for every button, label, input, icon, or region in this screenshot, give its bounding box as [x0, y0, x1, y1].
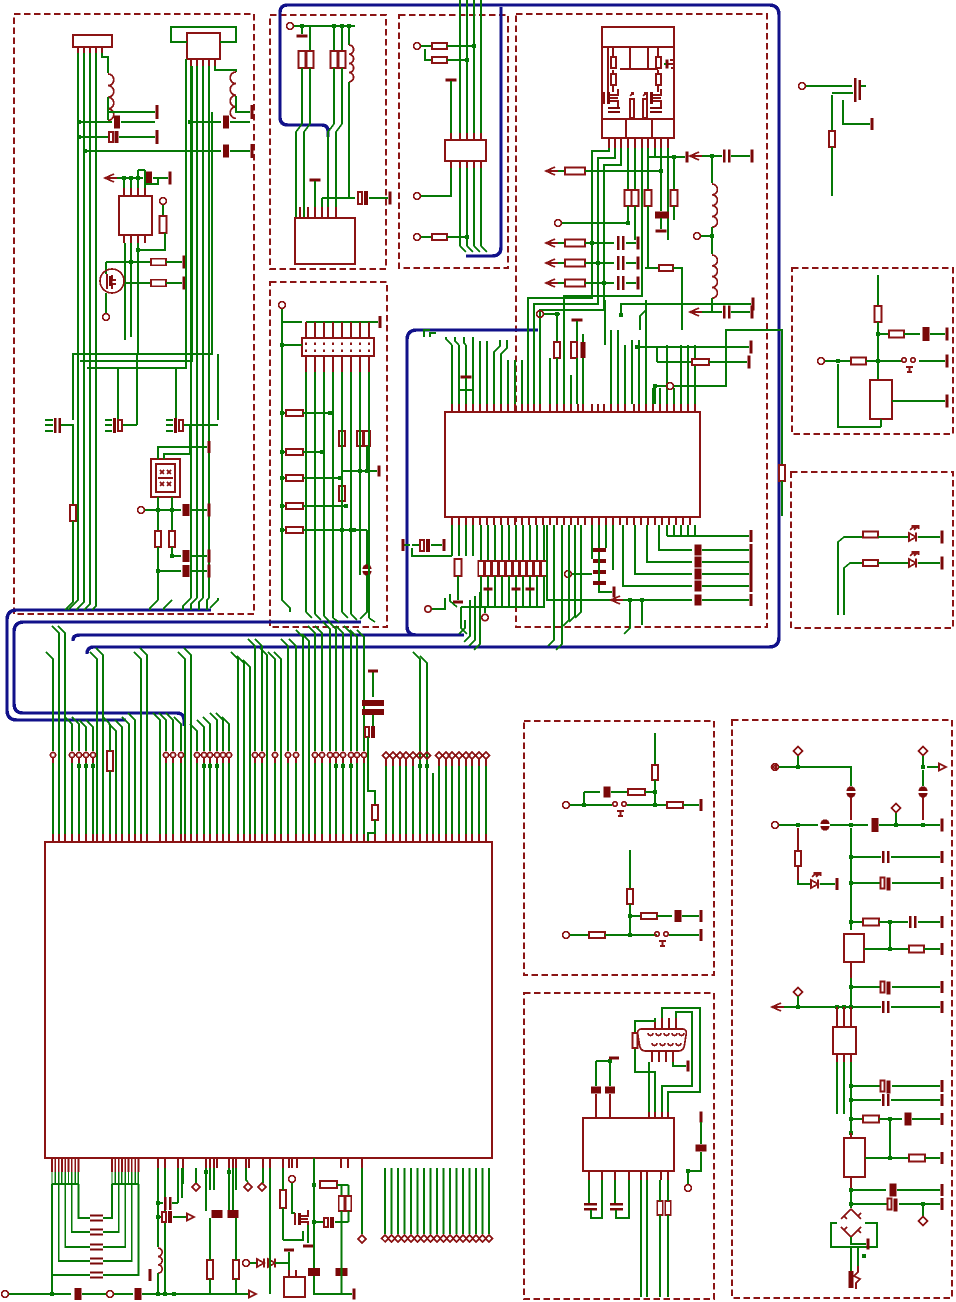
- capacitor C52: [675, 910, 682, 922]
- resistor R47: [364, 431, 370, 446]
- resistor R37: [541, 561, 547, 576]
- connector J1 pins: [77, 47, 79, 53]
- capacitor C46: [212, 1210, 223, 1218]
- wire: [683, 804, 699, 806]
- terminal bar: [750, 341, 753, 354]
- wire: [629, 850, 631, 888]
- wire: [627, 148, 629, 190]
- capacitor C38: [90, 1228, 103, 1230]
- wire: [598, 552, 600, 581]
- wire: [534, 148, 615, 404]
- wire: [162, 205, 164, 216]
- resistor R73: [863, 919, 879, 926]
- capacitor C7: [113, 418, 116, 433]
- wire: [420, 656, 427, 834]
- junction: [888, 1117, 892, 1121]
- terminal bar: [251, 121, 254, 124]
- capacitor (module): [650, 107, 662, 109]
- junction: [122, 176, 126, 180]
- module U5 (dual MOSFET): [602, 27, 674, 138]
- resistor R10: [339, 51, 346, 68]
- wire: [341, 1185, 343, 1196]
- wire: [337, 1184, 349, 1186]
- wire: [629, 904, 631, 935]
- module gate pins: [630, 99, 634, 118]
- wire: [831, 1223, 877, 1247]
- wire: [164, 425, 190, 459]
- connector J3 pin marks: [305, 343, 307, 345]
- resistor R58: [233, 1260, 239, 1279]
- wires from J1: [77, 53, 79, 598]
- terminal bar: [750, 594, 753, 606]
- switch S3: [655, 932, 659, 936]
- terminal bar: [836, 878, 839, 890]
- wire: [634, 148, 636, 190]
- junction: [596, 261, 600, 265]
- capacitor C59 (polarized): [919, 786, 928, 790]
- terminal bar: [443, 539, 446, 551]
- wire: [654, 386, 656, 404]
- wire: [447, 45, 474, 47]
- wire: [877, 322, 879, 380]
- pin: [922, 797, 924, 820]
- junction: [653, 803, 657, 807]
- junction: [312, 1183, 316, 1187]
- wire: [469, 596, 475, 646]
- wire: [528, 148, 609, 404]
- wire: [648, 156, 685, 158]
- terminal bars below resistor array: [484, 588, 493, 591]
- wire: [925, 1157, 940, 1159]
- section border 10 (supply): [732, 720, 952, 1298]
- wire: [303, 451, 322, 453]
- capacitor stack C33: [372, 672, 374, 697]
- resistor R18: [671, 190, 678, 206]
- wire: [922, 756, 924, 767]
- wire: [891, 1099, 940, 1101]
- wire: [461, 607, 467, 634]
- bus L3: [73, 635, 457, 641]
- terminal diamond: [258, 1183, 266, 1191]
- resistor R50: [875, 306, 882, 322]
- IC U2: [119, 196, 152, 235]
- inductor L2: [230, 72, 236, 118]
- junction: [50, 1292, 54, 1296]
- wire fan from buses to terminals: [46, 652, 53, 751]
- arrow terminal: [546, 167, 558, 175]
- capacitor C18: [655, 212, 669, 219]
- wire: [303, 505, 346, 507]
- wire: [404, 544, 410, 546]
- rail: [112, 1183, 138, 1185]
- wire: [596, 1060, 612, 1062]
- wire: [142, 1293, 248, 1295]
- capacitor C34: [362, 700, 384, 706]
- resistor R4: [70, 505, 76, 521]
- wire: [324, 616, 330, 622]
- junction: [626, 221, 630, 225]
- wire: [105, 424, 112, 426]
- wire: [460, 246, 466, 252]
- capacitor C12: [358, 192, 362, 204]
- resistor R57: [207, 1260, 213, 1279]
- capacitor C49: [336, 1268, 348, 1276]
- wire: [556, 358, 558, 404]
- wire: [366, 446, 368, 471]
- terminal bar: [666, 60, 669, 69]
- wire: [669, 934, 699, 936]
- bus L1 with left loop: [7, 610, 211, 720]
- terminal bar: [613, 587, 616, 598]
- resistor R14: [565, 168, 585, 175]
- resistor R67: [641, 913, 657, 919]
- arrow terminal: [546, 279, 558, 287]
- wire: [164, 600, 172, 610]
- wire: [175, 368, 177, 420]
- arrow terminal: [690, 152, 702, 160]
- wire: [87, 59, 186, 368]
- resistor R16: [565, 260, 585, 267]
- terminal: [818, 358, 825, 365]
- wire: [711, 227, 713, 254]
- wire: [341, 446, 343, 486]
- terminal: [772, 822, 779, 829]
- junction: [344, 504, 348, 508]
- terminal bar: [750, 556, 753, 568]
- wire: [544, 313, 560, 315]
- wire: [117, 368, 119, 420]
- resistor R54: [863, 560, 878, 566]
- pin: [797, 866, 799, 880]
- wire: [781, 481, 783, 516]
- wire: [851, 921, 862, 923]
- wire: [558, 242, 564, 244]
- terminal bar: [700, 910, 703, 922]
- terminal: [2, 1291, 9, 1298]
- terminal bar: [297, 35, 308, 38]
- junction: [170, 508, 174, 512]
- terminal bar: [941, 851, 944, 863]
- wire: [275, 1252, 289, 1263]
- capacitor C57: [610, 1203, 623, 1206]
- connector J1: [73, 35, 112, 47]
- U9 bottom pins: [588, 1171, 590, 1180]
- wire: [689, 311, 691, 313]
- arrow terminal: [249, 1291, 256, 1298]
- wire: [627, 804, 666, 806]
- wire: [368, 820, 375, 842]
- wire: [599, 585, 612, 592]
- junction: [849, 1117, 853, 1121]
- resistor R44: [286, 527, 303, 533]
- terminal bar: [284, 1249, 294, 1252]
- junction: [156, 508, 160, 512]
- transformer T1: [833, 1027, 856, 1054]
- wire: [184, 424, 218, 426]
- relay K1: [870, 380, 892, 419]
- wire: [797, 996, 799, 1007]
- wire: [328, 124, 334, 207]
- wires below resistor array: [480, 576, 482, 607]
- terminal bar: [941, 531, 944, 544]
- terminal: [482, 614, 488, 620]
- wire: [927, 766, 938, 768]
- capacitor C64: [909, 916, 911, 928]
- terminal bar: [368, 670, 378, 673]
- wire: [430, 333, 436, 337]
- resistor R22: [659, 265, 673, 271]
- resistor R1: [160, 216, 167, 233]
- capacitor C45: [162, 1212, 166, 1222]
- capacitor C47: [228, 1210, 239, 1218]
- junction: [628, 598, 632, 602]
- wire: [838, 364, 881, 427]
- wire: [421, 236, 431, 238]
- wire: [341, 1211, 343, 1294]
- wire: [656, 347, 658, 362]
- wire: [662, 1012, 692, 1112]
- wire: [351, 614, 357, 620]
- wires above U6: [451, 345, 453, 404]
- wire: [564, 240, 642, 380]
- wire: [412, 548, 424, 556]
- wire: [333, 618, 339, 622]
- resistor R72: [795, 851, 801, 866]
- wire: [604, 300, 606, 345]
- resistor R26: [779, 465, 785, 481]
- terminal diamond: [919, 747, 928, 756]
- junction: [894, 823, 898, 827]
- wire: [806, 85, 852, 87]
- resistor R6: [169, 531, 175, 547]
- resistor R8: [307, 51, 314, 68]
- wire: [105, 262, 107, 274]
- resistor R9: [331, 51, 338, 68]
- junction: [129, 176, 133, 180]
- section border 2 (oscillator): [270, 15, 386, 269]
- pin: [850, 962, 852, 978]
- wire: [688, 1152, 701, 1171]
- wire: [421, 45, 431, 47]
- junction: [888, 920, 892, 924]
- wire: [157, 547, 159, 600]
- wire: [575, 525, 581, 618]
- wire: [857, 1247, 859, 1266]
- transistor Q4: [298, 1213, 301, 1225]
- junction: [628, 933, 632, 937]
- capacitor C67: [881, 1081, 885, 1092]
- capacitor C68: [882, 1094, 884, 1106]
- capacitor C44: [164, 1197, 167, 1210]
- wire: [682, 915, 699, 917]
- capacitor C17: [617, 276, 619, 290]
- capacitor C36: [365, 727, 369, 737]
- junction: [921, 765, 925, 769]
- wire: [798, 880, 810, 884]
- junction: [352, 528, 356, 532]
- wire: [262, 1168, 264, 1183]
- junction: [628, 914, 632, 918]
- capacitor C50: [324, 1218, 328, 1227]
- wire: [585, 262, 614, 264]
- terminal bar: [941, 1094, 944, 1106]
- wire: [138, 169, 145, 171]
- wire: [269, 1168, 271, 1294]
- wire: [621, 304, 751, 315]
- junction: [77, 120, 81, 124]
- wire: [591, 1180, 602, 1218]
- wire: [79, 121, 112, 123]
- pin: [850, 1133, 852, 1138]
- wire: [563, 525, 569, 626]
- wire: [455, 337, 459, 345]
- wire: [105, 419, 112, 421]
- junction: [136, 176, 140, 180]
- junction: [312, 1220, 316, 1224]
- capacitor C32: [923, 327, 930, 341]
- wire: [892, 1085, 940, 1087]
- wire: [172, 1202, 178, 1204]
- terminal bar: [751, 306, 754, 319]
- junction: [340, 528, 344, 532]
- junction: [849, 1005, 853, 1009]
- resistor R45: [339, 431, 345, 446]
- terminal (module): [668, 60, 674, 68]
- resistor R12: [432, 57, 447, 63]
- wire: [588, 1180, 590, 1203]
- junction: [320, 450, 324, 454]
- inductor L6: [158, 1248, 162, 1273]
- wire: [635, 1018, 655, 1033]
- wire: [172, 547, 181, 556]
- wire: [447, 236, 467, 238]
- wire: [369, 197, 388, 199]
- wire: [700, 1122, 702, 1144]
- terminal: [565, 571, 572, 578]
- wire: [158, 1216, 161, 1218]
- connector J2 pins: [190, 59, 192, 66]
- wire: [341, 501, 343, 530]
- wire: [103, 717, 110, 724]
- module internals: [608, 47, 658, 92]
- capacitor C42: [75, 1288, 82, 1300]
- terminal bar: [353, 1289, 356, 1300]
- terminal bar: [941, 1152, 944, 1164]
- arrow terminal: [611, 596, 623, 604]
- resistor R64: [628, 789, 645, 795]
- wire: [288, 1263, 290, 1270]
- resistor R42: [286, 475, 303, 481]
- U7 bottom pins: [157, 1158, 159, 1168]
- wire: [879, 824, 940, 826]
- terminal: [563, 932, 570, 939]
- wire: [45, 430, 53, 432]
- wire: [314, 1221, 323, 1223]
- wire: [626, 262, 636, 264]
- resistor R48: [339, 486, 345, 501]
- wire: [145, 178, 158, 188]
- capacitor C8: [174, 418, 177, 433]
- wire: [919, 360, 945, 362]
- IC U8: [284, 1277, 305, 1297]
- wire: [105, 430, 112, 432]
- wire: [654, 733, 656, 764]
- wire: [360, 575, 367, 619]
- wire: [304, 124, 310, 217]
- wire: [918, 921, 940, 923]
- junction: [77, 135, 81, 139]
- resistor R29: [485, 561, 491, 576]
- wire: [105, 293, 107, 313]
- terminal bar: [686, 152, 689, 163]
- wire: [879, 921, 908, 923]
- resistor R31: [499, 561, 505, 576]
- wire: [585, 242, 614, 244]
- terminal bar: [389, 192, 392, 205]
- resistor R52: [851, 358, 866, 365]
- U2 top pins: [123, 188, 125, 196]
- wire: [612, 525, 614, 570]
- terminal bar: [637, 237, 640, 250]
- wire: [166, 261, 182, 263]
- transistor Q2 (in module): [607, 92, 610, 104]
- capacitor (module): [608, 107, 620, 109]
- wire: [657, 361, 691, 363]
- wire: [181, 1168, 183, 1198]
- wire: [851, 1099, 881, 1101]
- wire: [784, 1006, 851, 1008]
- rail: [52, 1183, 78, 1185]
- terminal: [685, 1185, 692, 1192]
- wire: [609, 1061, 611, 1086]
- wire: [731, 311, 750, 313]
- capacitor C1: [114, 116, 120, 129]
- terminal: [537, 311, 544, 318]
- wire: [230, 150, 250, 152]
- junction: [465, 235, 469, 239]
- junction: [280, 411, 284, 415]
- wire: [65, 600, 73, 610]
- wire: [130, 243, 132, 337]
- wire: [138, 233, 165, 250]
- wire: [235, 1279, 237, 1294]
- wire: [891, 856, 940, 858]
- wire: [303, 529, 354, 531]
- terminal bar: [750, 530, 753, 542]
- diamond terminal row: [384, 1168, 386, 1234]
- J3 bottom pins: [305, 356, 307, 372]
- section border 6 (relay): [792, 268, 953, 434]
- wire: [73, 112, 212, 420]
- wire: [282, 477, 285, 479]
- wire: [562, 222, 628, 224]
- bus L2 with left loop: [14, 622, 361, 726]
- pin: [850, 797, 852, 820]
- wire: [647, 206, 649, 268]
- junction: [888, 1156, 892, 1160]
- wire: [282, 1208, 284, 1240]
- capacitor C6: [54, 418, 56, 433]
- wire: [687, 1171, 689, 1184]
- wire: [136, 355, 138, 425]
- wire: [283, 1231, 303, 1240]
- junction: [358, 469, 362, 473]
- resistor R15: [565, 240, 585, 247]
- wire: [314, 181, 316, 207]
- wire: [366, 530, 368, 565]
- wire: [45, 419, 53, 421]
- terminal bar: [750, 580, 753, 592]
